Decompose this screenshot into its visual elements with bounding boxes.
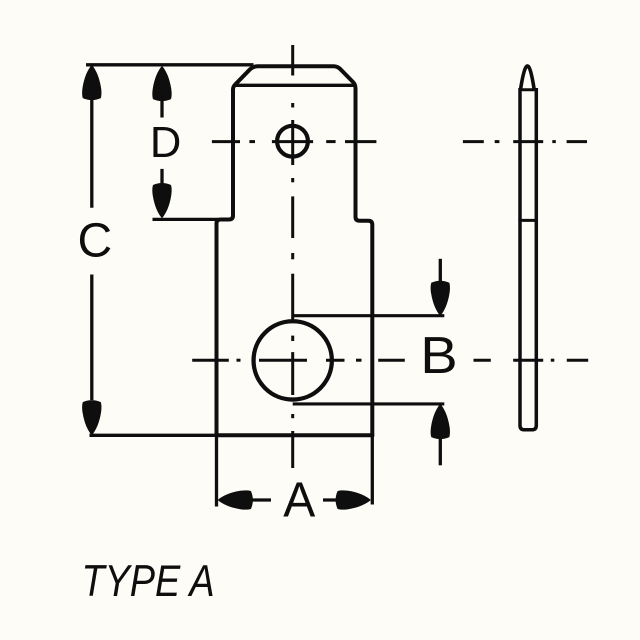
A left arrowhead (left) bbox=[218, 490, 253, 509]
dimension C arrow line bbox=[90, 97, 93, 208]
chamfer bevel line bbox=[234, 84, 354, 87]
svg-text:B: B bbox=[420, 327, 457, 385]
horizontal centerline through large hole (dash-dot) bbox=[192, 359, 588, 362]
blade step line bbox=[518, 219, 538, 222]
dimension A arrow lines bbox=[251, 498, 271, 501]
B top extension line bbox=[293, 314, 445, 317]
horizontal centerline through small hole (dash-dot) bbox=[212, 140, 587, 143]
dimension D arrow line bbox=[160, 96, 163, 118]
A left extension line bbox=[215, 437, 218, 507]
B top arrowhead (down) bbox=[431, 281, 450, 316]
dimension B arrow lines bbox=[439, 259, 442, 284]
B bottom extension line bbox=[293, 402, 445, 405]
C bottom arrowhead (down) bbox=[82, 400, 101, 435]
vertical centerline (dash-dot) bbox=[291, 45, 294, 468]
svg-text:D: D bbox=[150, 119, 181, 167]
blade tip base line bbox=[520, 88, 537, 91]
terminal front-view outline bbox=[217, 66, 373, 435]
svg-text:A: A bbox=[283, 473, 315, 528]
svg-text:TYPE A: TYPE A bbox=[82, 556, 215, 606]
top extension line (C/D datum) bbox=[86, 63, 254, 66]
B bottom arrowhead (up) bbox=[431, 404, 450, 439]
C top arrowhead (up) bbox=[82, 65, 101, 100]
bottom extension line (C bottom datum) bbox=[90, 434, 375, 437]
A right arrowhead (right) bbox=[336, 490, 371, 509]
svg-text:C: C bbox=[77, 214, 112, 267]
A right extension line bbox=[371, 437, 374, 505]
step extension line (D bottom datum) bbox=[153, 218, 219, 221]
small hole in tab bbox=[277, 126, 308, 157]
blade tip bbox=[521, 66, 535, 89]
large hole in body bbox=[254, 321, 332, 399]
side view blade bbox=[520, 88, 536, 430]
D top arrowhead (up) bbox=[152, 66, 171, 101]
D bottom arrowhead (down) bbox=[152, 183, 171, 218]
